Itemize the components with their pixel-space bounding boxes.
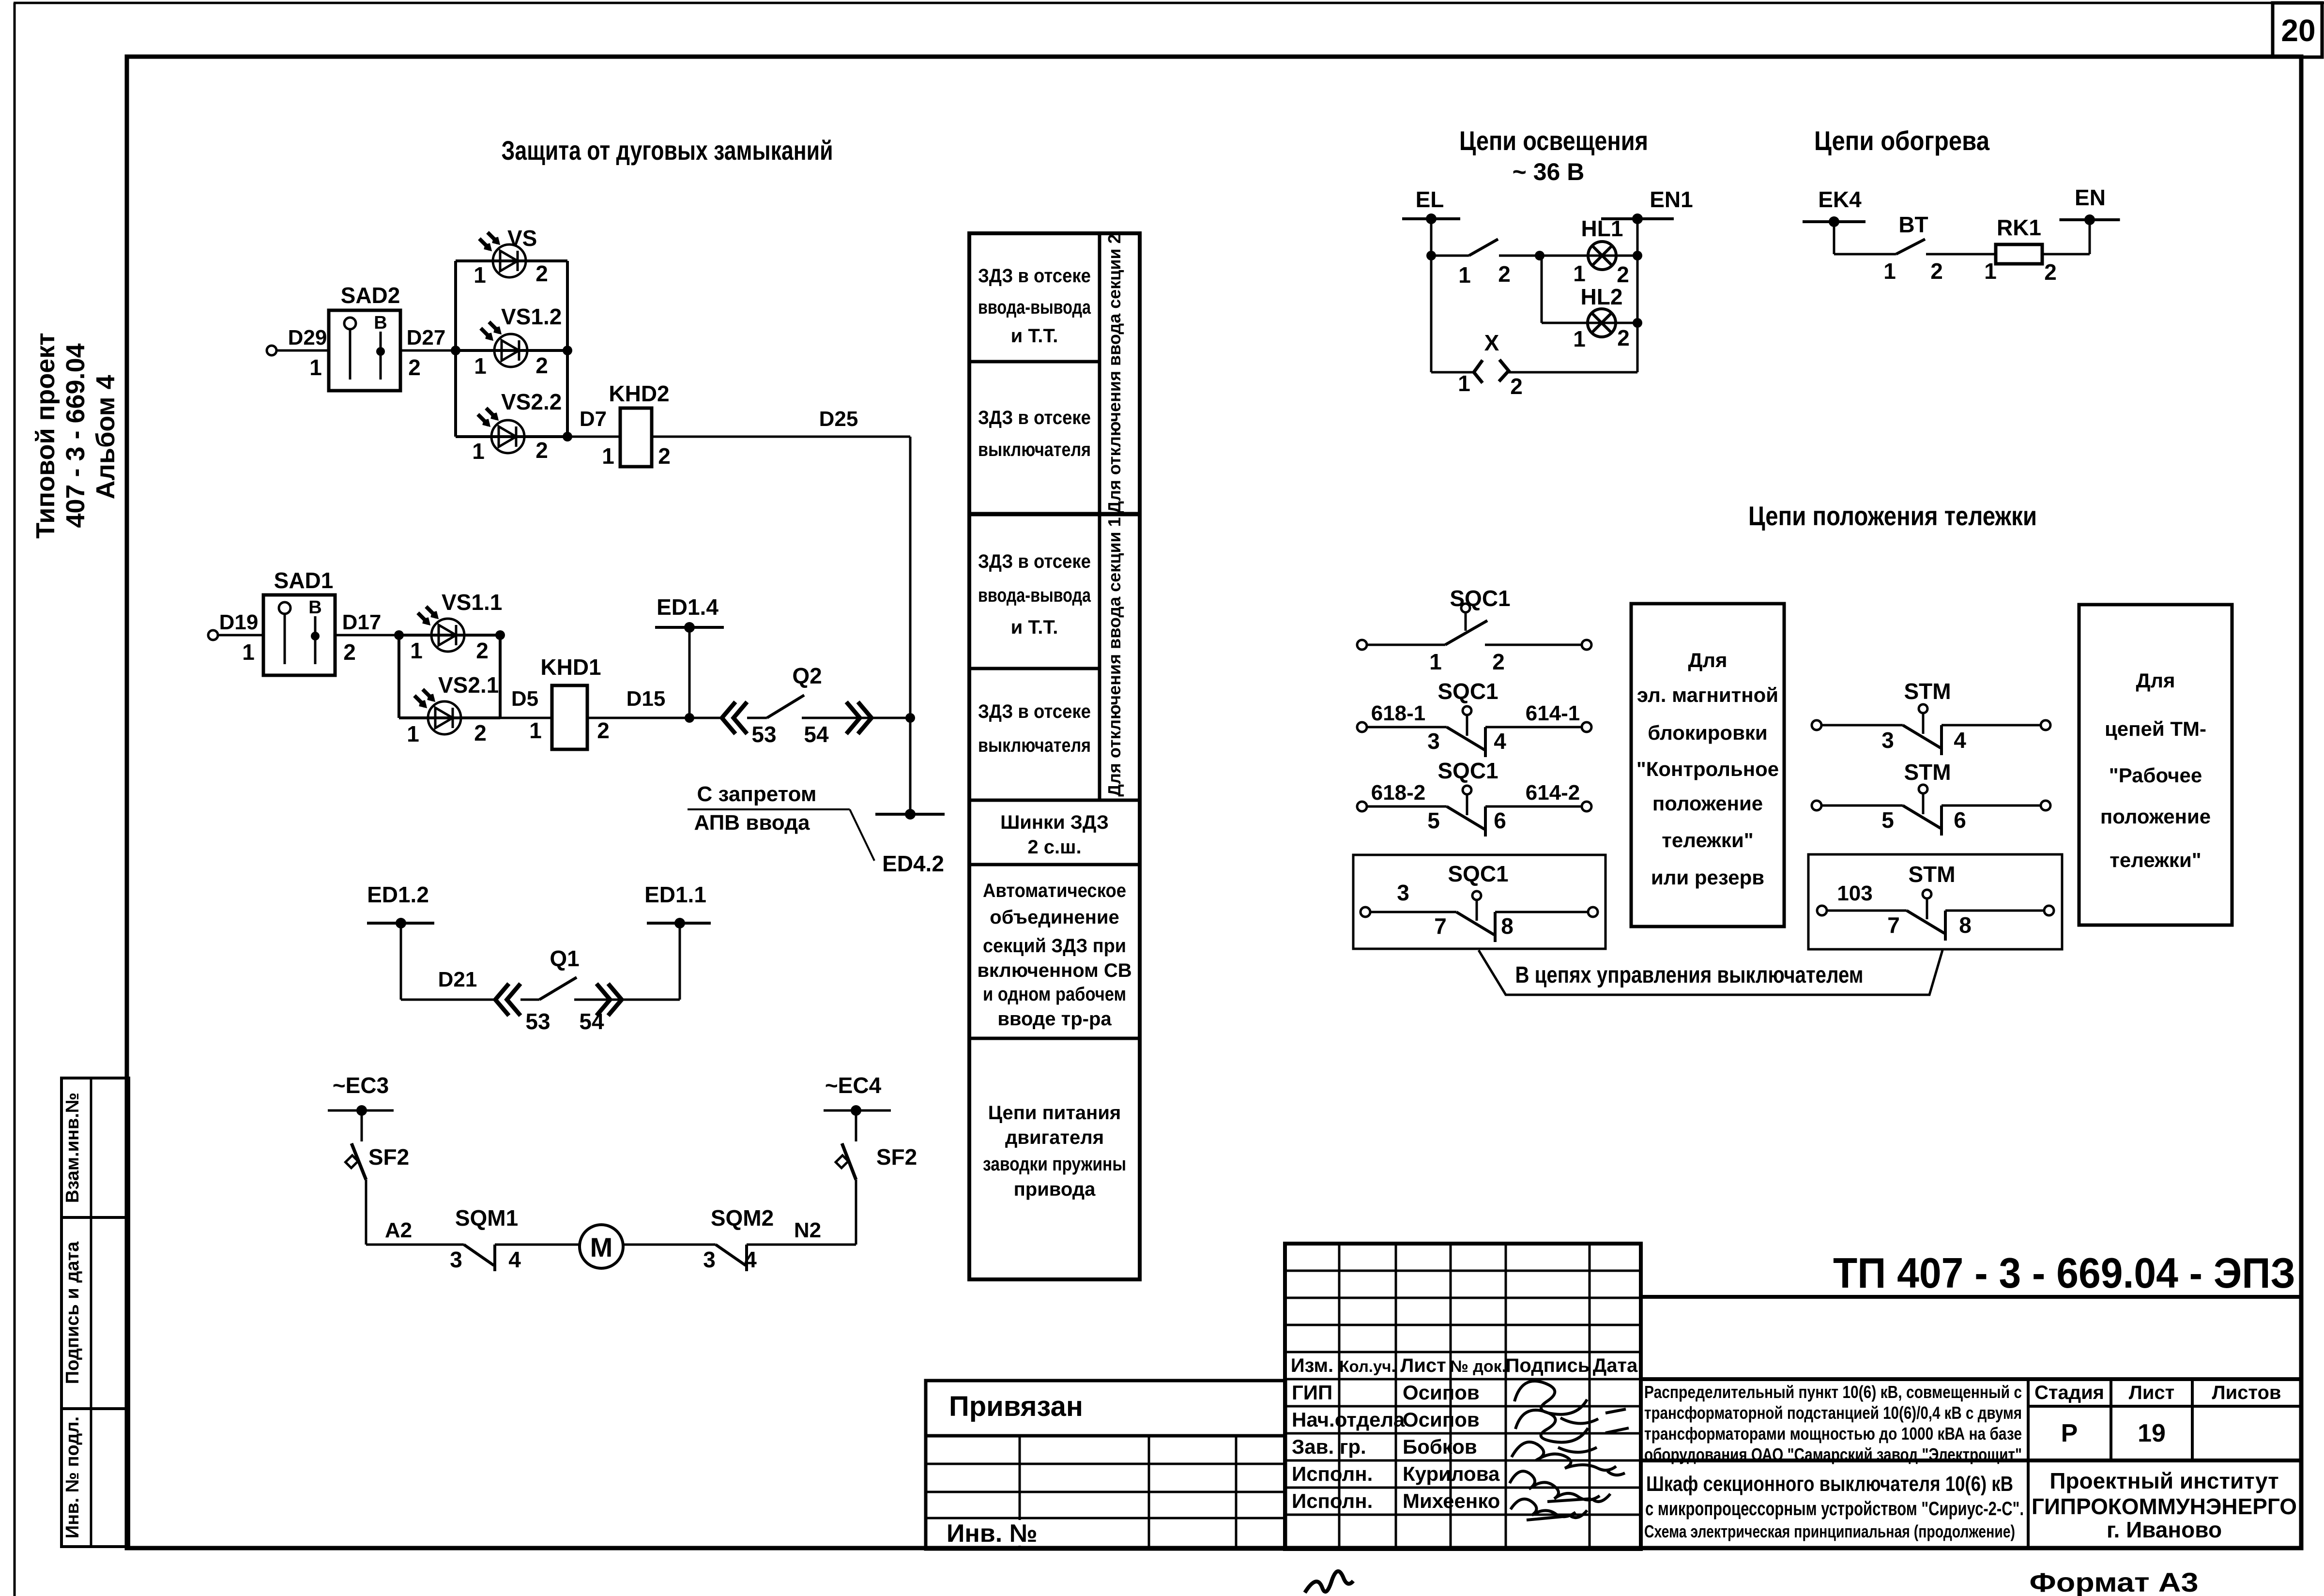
svg-text:ED1.4: ED1.4 [657,594,719,620]
svg-text:и Т.Т.: и Т.Т. [1011,325,1058,347]
svg-text:Лист: Лист [2129,1382,2175,1403]
svg-text:Взам.инв.№: Взам.инв.№ [62,1093,83,1203]
svg-text:ГИП: ГИП [1292,1381,1332,1404]
svg-text:19: 19 [2138,1419,2166,1447]
svg-text:заводки пружины: заводки пружины [983,1154,1126,1175]
svg-text:STM: STM [1904,679,1951,704]
svg-text:7: 7 [1887,912,1900,938]
svg-text:1: 1 [1573,326,1586,351]
svg-text:5: 5 [1881,807,1894,833]
svg-text:614-1: 614-1 [1526,701,1580,725]
svg-text:53: 53 [525,1009,550,1034]
svg-text:RK1: RK1 [1997,215,2041,240]
svg-text:1: 1 [407,721,419,746]
svg-text:4: 4 [1494,729,1506,754]
svg-text:Нач.отдела: Нач.отдела [1292,1408,1405,1431]
svg-text:A2: A2 [385,1218,412,1242]
svg-text:положение: положение [1652,792,1763,815]
svg-text:D25: D25 [819,407,858,431]
svg-text:ED4.2: ED4.2 [882,851,944,876]
svg-text:BT: BT [1898,212,1928,237]
svg-text:АПВ ввода: АПВ ввода [694,811,810,835]
svg-text:D15: D15 [627,687,666,711]
svg-text:Для отключения ввода секции 2: Для отключения ввода секции 2 [1104,234,1124,513]
svg-text:Цепи освещения: Цепи освещения [1459,125,1648,156]
svg-text:8: 8 [1959,912,1972,938]
svg-text:ГИПРОКОММУНЭНЕРГО: ГИПРОКОММУНЭНЕРГО [2032,1494,2297,1519]
svg-text:SF2: SF2 [368,1144,409,1170]
svg-text:D29: D29 [288,326,327,350]
svg-text:1: 1 [242,639,255,665]
svg-text:Стадия: Стадия [2034,1382,2104,1403]
svg-text:Р: Р [2061,1419,2078,1447]
svg-text:"Контрольное: "Контрольное [1636,758,1779,780]
svg-text:EL: EL [1416,187,1444,212]
svg-text:VS1.1: VS1.1 [442,590,502,615]
svg-text:8: 8 [1501,913,1514,939]
svg-text:2: 2 [2044,259,2057,285]
svg-text:тележки": тележки" [1662,829,1753,851]
svg-text:Защита от дуговых замыканий: Защита от дуговых замыканий [502,135,833,166]
svg-text:D17: D17 [342,610,382,634]
svg-text:Шкаф секционного выключателя 1: Шкаф секционного выключателя 10(6) кВ [1646,1472,2013,1496]
svg-text:618-2: 618-2 [1371,781,1426,805]
svg-text:Q2: Q2 [792,663,822,688]
svg-text:В: В [308,597,321,618]
svg-text:6: 6 [1954,807,1966,833]
svg-text:1: 1 [1429,649,1442,674]
svg-text:и Т.Т.: и Т.Т. [1011,617,1058,638]
svg-text:SQC1: SQC1 [1437,679,1498,704]
svg-text:~EC4: ~EC4 [825,1073,882,1098]
svg-text:ED1.1: ED1.1 [644,882,706,907]
svg-text:D19: D19 [219,610,259,634]
svg-text:1: 1 [602,443,614,469]
svg-text:SQC1: SQC1 [1450,586,1510,611]
svg-text:Подпись и дата: Подпись и дата [62,1241,83,1384]
svg-text:2 с.ш.: 2 с.ш. [1027,836,1081,858]
svg-text:ЗДЗ в отсеке: ЗДЗ в отсеке [978,701,1091,722]
svg-text:1: 1 [474,262,486,288]
svg-text:ЗДЗ в отсеке: ЗДЗ в отсеке [978,407,1091,428]
svg-text:4: 4 [508,1247,521,1272]
svg-text:X: X [1484,330,1499,355]
svg-text:Формат А3: Формат А3 [2030,1567,2199,1596]
svg-text:выключателя: выключателя [978,439,1091,460]
svg-text:№ док.: № док. [1450,1357,1506,1376]
svg-text:7: 7 [1434,913,1447,939]
svg-text:SAD1: SAD1 [274,568,334,593]
svg-text:Лист: Лист [1400,1355,1446,1376]
svg-text:D5: D5 [511,687,538,711]
svg-text:KHD2: KHD2 [609,381,669,406]
svg-text:Для отключения ввода секции 1: Для отключения ввода секции 1 [1104,517,1124,796]
svg-text:цепей ТМ-: цепей ТМ- [2105,717,2206,740]
svg-text:SQM2: SQM2 [711,1205,774,1231]
svg-text:блокировки: блокировки [1648,721,1768,744]
svg-text:1: 1 [529,718,542,743]
svg-text:SQM1: SQM1 [455,1205,518,1231]
svg-text:привода: привода [1014,1179,1096,1200]
svg-text:EK4: EK4 [1818,187,1862,212]
svg-text:618-1: 618-1 [1371,701,1426,725]
svg-text:С запретом: С запретом [697,782,817,806]
svg-text:VS2.2: VS2.2 [501,389,562,414]
svg-text:В цепях управления выключателе: В цепях управления выключателем [1515,962,1864,988]
svg-text:ED1.2: ED1.2 [367,882,429,907]
svg-text:Цепи положения тележки: Цепи положения тележки [1748,501,2037,531]
svg-text:Дата: Дата [1593,1355,1638,1376]
svg-text:ЗДЗ в отсеке: ЗДЗ в отсеке [978,551,1091,572]
svg-text:Q1: Q1 [550,946,579,971]
svg-text:2: 2 [1617,325,1630,350]
svg-text:тележки": тележки" [2110,849,2201,871]
svg-text:Изм.: Изм. [1291,1355,1333,1376]
svg-text:2: 2 [343,639,356,665]
svg-text:3: 3 [1427,729,1440,754]
svg-text:1: 1 [472,439,485,464]
svg-text:Привязан: Привязан [949,1391,1083,1422]
svg-text:1: 1 [1458,371,1470,396]
svg-text:2: 2 [1617,262,1629,287]
svg-text:трансформаторами мощностью до: трансформаторами мощностью до 1000 кВА н… [1644,1424,2022,1444]
svg-text:3: 3 [450,1247,462,1272]
svg-text:эл. магнитной: эл. магнитной [1637,684,1778,706]
svg-text:включенном СВ: включенном СВ [977,960,1131,981]
svg-text:Для: Для [2136,669,2175,692]
svg-text:Цепи питания: Цепи питания [988,1102,1121,1124]
svg-text:Исполн.: Исполн. [1292,1490,1373,1512]
svg-text:1: 1 [1573,261,1586,286]
svg-text:D27: D27 [407,326,446,350]
svg-text:2: 2 [597,718,610,743]
svg-text:или резерв: или резерв [1651,866,1764,889]
svg-text:2: 2 [535,353,548,378]
svg-text:Инв. № подл.: Инв. № подл. [62,1416,83,1538]
svg-text:Курилова: Курилова [1403,1462,1500,1485]
svg-text:трансформаторной подстанцией 1: трансформаторной подстанцией 10(6)/0,4 к… [1644,1403,2022,1423]
svg-text:STM: STM [1904,760,1951,785]
svg-text:4: 4 [744,1247,757,1272]
svg-text:614-2: 614-2 [1526,781,1580,805]
svg-text:Осипов: Осипов [1403,1381,1480,1404]
svg-text:1: 1 [1458,262,1471,288]
svg-text:2: 2 [535,261,548,286]
svg-text:Для: Для [1688,649,1727,671]
svg-text:1: 1 [410,638,423,663]
svg-text:Зав. гр.: Зав. гр. [1292,1435,1366,1458]
svg-text:5: 5 [1427,808,1440,833]
svg-text:SQC1: SQC1 [1437,758,1498,783]
svg-text:ТП 407 - 3 - 669.04 - ЭПЗ: ТП 407 - 3 - 669.04 - ЭПЗ [1833,1249,2295,1297]
svg-text:20: 20 [2281,13,2315,48]
svg-text:Инв. №: Инв. № [947,1520,1038,1548]
svg-text:~EC3: ~EC3 [333,1073,389,1098]
svg-text:~ 36 В: ~ 36 В [1513,158,1585,185]
svg-text:407 - 3 - 669.04: 407 - 3 - 669.04 [61,343,90,528]
svg-text:2: 2 [658,443,671,469]
svg-text:1: 1 [309,355,322,380]
svg-text:N2: N2 [794,1218,821,1242]
svg-text:2: 2 [1492,649,1505,674]
svg-text:54: 54 [804,722,829,747]
svg-text:1: 1 [1984,258,1997,284]
svg-text:2: 2 [408,355,421,380]
svg-text:2: 2 [1498,261,1511,287]
svg-text:Подпись: Подпись [1506,1355,1590,1376]
svg-text:SQC1: SQC1 [1448,861,1508,886]
svg-text:M: M [590,1232,613,1262]
svg-text:В: В [374,313,387,333]
svg-text:Типовой проект: Типовой проект [31,333,60,539]
svg-text:4: 4 [1954,728,1966,753]
svg-text:Листов: Листов [2212,1382,2281,1403]
svg-text:Исполн.: Исполн. [1292,1462,1373,1485]
svg-text:вводе тр-ра: вводе тр-ра [997,1008,1112,1030]
svg-text:Осипов: Осипов [1403,1408,1480,1431]
svg-text:VS: VS [507,226,537,251]
svg-text:ввода-вывода: ввода-вывода [978,297,1091,318]
svg-text:и одном рабочем: и одном рабочем [983,984,1126,1005]
svg-text:6: 6 [1494,808,1506,833]
svg-text:объединение: объединение [990,907,1119,928]
svg-text:Михеенко: Михеенко [1403,1490,1500,1512]
svg-text:SAD2: SAD2 [341,283,400,308]
svg-text:секций ЗДЗ при: секций ЗДЗ при [983,935,1126,957]
svg-text:1: 1 [474,353,487,379]
svg-text:положение: положение [2100,805,2211,828]
svg-text:KHD1: KHD1 [540,654,601,680]
svg-text:2: 2 [1510,374,1523,399]
svg-text:г. Иваново: г. Иваново [2107,1517,2222,1542]
svg-text:3: 3 [1881,728,1894,753]
svg-text:VS1.2: VS1.2 [501,304,562,329]
svg-text:выключателя: выключателя [978,735,1091,756]
svg-text:2: 2 [1930,258,1943,284]
svg-text:1: 1 [1883,258,1896,284]
svg-text:3: 3 [1397,880,1409,905]
svg-text:ЗДЗ в отсеке: ЗДЗ в отсеке [978,265,1091,287]
svg-text:с микропроцессорным устройство: с микропроцессорным устройством "Сириус-… [1645,1498,2024,1520]
svg-text:Автоматическое: Автоматическое [983,880,1126,901]
svg-text:D7: D7 [580,407,607,431]
svg-text:2: 2 [474,720,487,745]
svg-text:VS2.1: VS2.1 [438,672,499,698]
svg-text:Шинки ЗДЗ: Шинки ЗДЗ [1000,812,1109,833]
svg-text:Цепи обогрева: Цепи обогрева [1814,125,1990,156]
svg-text:2: 2 [535,438,548,463]
svg-text:Бобков: Бобков [1403,1435,1477,1458]
svg-text:двигателя: двигателя [1005,1127,1104,1148]
svg-text:53: 53 [751,722,776,747]
svg-text:Альбом 4: Альбом 4 [91,375,120,499]
svg-text:EN: EN [2075,185,2106,210]
svg-text:SF2: SF2 [876,1144,917,1170]
svg-text:Проектный институт: Проектный институт [2049,1468,2278,1493]
svg-text:54: 54 [579,1009,604,1034]
svg-text:EN1: EN1 [1650,187,1693,212]
svg-text:ввода-вывода: ввода-вывода [978,585,1091,606]
svg-text:2: 2 [476,638,489,663]
svg-text:D21: D21 [438,968,477,991]
svg-text:"Рабочее: "Рабочее [2109,764,2202,787]
svg-text:HL2: HL2 [1581,284,1623,309]
svg-text:STM: STM [1908,862,1955,887]
svg-text:Схема электрическая принципиал: Схема электрическая принципиальная (прод… [1644,1521,2015,1541]
svg-text:3: 3 [703,1247,716,1272]
svg-text:Кол.уч.: Кол.уч. [1339,1357,1395,1375]
svg-text:Распределительный пункт 10(6): Распределительный пункт 10(6) кВ, совмещ… [1644,1382,2022,1402]
svg-text:103: 103 [1837,882,1872,905]
